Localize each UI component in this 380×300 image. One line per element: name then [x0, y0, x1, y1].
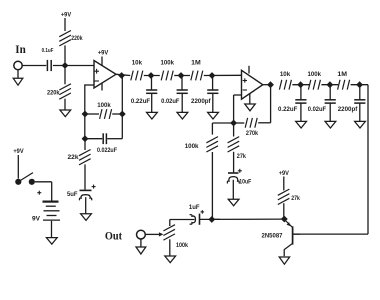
op-amp U2 triangle [242, 70, 263, 99]
input jack J1 [14, 61, 22, 69]
svg-text:100k: 100k [97, 102, 111, 109]
svg-text:1M: 1M [191, 60, 201, 67]
wire F2 to R10 [233, 123, 235, 137]
ground under battery [46, 238, 57, 245]
svg-text:0.02uF: 0.02uF [308, 106, 326, 113]
label + (battery) [37, 191, 41, 195]
resistor R12 100k [308, 80, 320, 90]
ground under Q1 [279, 257, 289, 264]
wire switch to battery [35, 182, 52, 201]
ground under output jack [136, 247, 146, 254]
wire node A to R2 [64, 69, 66, 85]
battery BT1 plates [43, 202, 61, 221]
svg-text:22k: 22k [68, 154, 79, 161]
node F1 left [82, 111, 88, 117]
node C [178, 73, 184, 79]
wire 100k fb right [112, 113, 122, 115]
svg-text:5uF: 5uF [67, 191, 78, 198]
wire 0.022uF right [107, 138, 122, 140]
wire U1 output [116, 74, 130, 75]
svg-text:1M: 1M [337, 71, 347, 78]
svg-text:0.022uF: 0.022uF [97, 147, 117, 154]
wire F2 left [212, 122, 233, 124]
ground under input jack [13, 78, 23, 85]
wire 100k fb left [85, 113, 99, 115]
wire R2 to ground [64, 99, 66, 110]
wire R11 to node E [292, 84, 309, 86]
label 100k (R3) [97, 102, 111, 109]
wire bus pot to C13 [170, 219, 195, 221]
wire C7 to ground [181, 93, 183, 112]
op-amp U1 minus input mark [94, 80, 99, 82]
label +9V transistor [279, 170, 290, 177]
potentiometer VR1 100k [163, 225, 175, 240]
wire C5 to ground [85, 197, 87, 214]
resistor R14 27k [278, 189, 290, 204]
wire U2 minus input [234, 94, 242, 96]
svg-text:220k: 220k [71, 35, 82, 42]
wire C13 to node I [200, 218, 221, 220]
wire node B to C6 [151, 76, 153, 90]
svg-text:2200pf: 2200pf [191, 98, 212, 105]
svg-text:27k: 27k [291, 195, 300, 202]
transistor Q1 emitter [285, 220, 292, 227]
wire U2 minus drop [233, 95, 235, 123]
wire feedback right vertical [367, 85, 369, 234]
wire node C to C7 [181, 76, 183, 90]
wire wiper [145, 233, 159, 235]
resistor R10 27k [228, 137, 240, 152]
label 0.22uF (C6) [131, 98, 151, 105]
label In [15, 44, 26, 56]
label 2200pf (C8) [191, 98, 212, 105]
wire jack to C1 [22, 65, 46, 67]
wire U1 feedback left vertical [84, 84, 86, 138]
wire C11 to ground [329, 103, 331, 121]
label 270k (R8) [246, 130, 258, 137]
svg-text:+9V: +9V [13, 148, 24, 155]
ground under C6 [147, 112, 158, 119]
ground under U2 [245, 104, 256, 111]
resistor R11 10k [279, 80, 291, 90]
ground under C12 [355, 121, 366, 128]
node B [148, 73, 154, 79]
wire C8 to ground [212, 93, 214, 112]
svg-text:0.02uF: 0.02uF [161, 98, 179, 105]
node F2 [231, 120, 237, 126]
wire 0.022uF left [85, 138, 102, 140]
wire battery to ground [51, 221, 53, 238]
node F1 right [119, 111, 125, 117]
label +9V battery [13, 148, 24, 155]
capacitor C1 0.1uF [47, 60, 51, 71]
label + (C13) [201, 210, 205, 214]
label 27k (R14) [291, 195, 300, 202]
node A [62, 63, 68, 69]
wire R4 to C5 [84, 164, 86, 189]
label +9V op-amp U1 [98, 49, 109, 56]
node D [209, 73, 215, 79]
wire jack to ground (out) [140, 239, 142, 247]
ground under C8 [208, 112, 219, 119]
wire node G to C12 [359, 85, 361, 100]
capacitor C6 0.22uF [146, 90, 157, 93]
svg-text:1uF: 1uF [189, 204, 200, 211]
svg-text:9V: 9V [32, 215, 41, 222]
label 10k (R5) [132, 60, 143, 67]
capacitor C4 0.022uF [103, 133, 106, 144]
wire node D to C8 [212, 76, 214, 90]
label 0.22uF (C10) [278, 106, 298, 113]
svg-text:27k: 27k [237, 153, 246, 160]
svg-text:0.22uF: 0.22uF [131, 98, 151, 105]
wire bus node I to node H [212, 218, 284, 220]
svg-text:270k: 270k [246, 130, 258, 137]
capacitor C9 10uF plus plate [228, 172, 239, 174]
wire F2 to R8 [234, 122, 245, 124]
label +9V top-left [61, 11, 72, 18]
wire R12 to node F [321, 84, 338, 86]
svg-text:+9V: +9V [61, 11, 72, 18]
resistor R1 220k pull-up [59, 31, 71, 46]
label 1uF [189, 204, 200, 211]
capacitor C5 5uF plus plate [80, 189, 92, 191]
capacitor C13 1uF plus plate [199, 214, 201, 225]
op-amp U1 triangle [94, 61, 116, 89]
svg-text:10uF: 10uF [239, 178, 251, 185]
switch SW1 lever [18, 173, 33, 182]
resistor R3 100k feedback [100, 109, 112, 119]
wire C6 to ground [151, 93, 153, 112]
op-amp U1 V+ pin tick [101, 57, 103, 67]
transistor Q1 collector [284, 243, 292, 256]
wire R13 to node G [351, 84, 368, 86]
svg-text:220k: 220k [47, 90, 60, 97]
capacitor C10 0.22uF [295, 100, 306, 103]
capacitor C8 2200pf [207, 90, 218, 93]
node G [357, 82, 363, 88]
wire node F to C11 [329, 85, 331, 100]
resistor R9 100k vertical [206, 137, 218, 152]
capacitor C5 5uF curved plate [79, 195, 91, 201]
ground under C5 [81, 214, 92, 221]
wire R1 to node A [64, 45, 66, 62]
label 0.022uF [97, 147, 117, 154]
svg-text:100k: 100k [161, 60, 175, 67]
label 0.02uF (C7) [161, 98, 179, 105]
label 100k (R6) [161, 60, 175, 67]
resistor R13 1M [338, 80, 350, 90]
wire pot top [169, 220, 171, 227]
op-amp U2 plus input mark [243, 78, 247, 82]
wire R6 to node C [174, 75, 190, 77]
pot wiper arrow [159, 232, 163, 236]
node E [298, 82, 304, 88]
label 100k (R9) [185, 143, 199, 150]
capacitor C9 10uF curved plate [227, 177, 239, 184]
switch SW1 pole dot [15, 179, 21, 185]
label 0.02uF (C11) [308, 106, 326, 113]
wire C10 to ground [300, 103, 302, 121]
svg-text:2N5087: 2N5087 [262, 233, 283, 240]
label 220k (R2) [47, 90, 60, 97]
wire R5 to node B [144, 75, 160, 77]
label 2N5087 [262, 233, 283, 240]
op-amp U2 minus input mark [243, 89, 247, 91]
op-amp U1 plus input mark [94, 69, 99, 74]
svg-text:+9V: +9V [279, 170, 290, 177]
node H [281, 216, 287, 222]
resistor R2 220k bias [59, 84, 71, 99]
capacitor C12 2200pf [354, 100, 365, 103]
capacitor C11 0.02uF [325, 100, 336, 103]
label 10uF [239, 178, 251, 185]
ground under C11 [325, 121, 336, 128]
svg-text:10k: 10k [132, 60, 143, 67]
wire C9 to ground [232, 180, 234, 199]
svg-text:100k: 100k [308, 71, 322, 78]
wire R7 to node D [204, 74, 242, 76]
output jack J2 [137, 230, 146, 239]
label 100k (R12) [308, 71, 322, 78]
wire corner down to R9 [211, 123, 213, 135]
wire R14 to node H [283, 203, 285, 219]
transistor Q1 base wire [293, 233, 300, 235]
ground under pot [165, 256, 176, 263]
wire +9V to R14 [283, 177, 285, 191]
label + (C5) [92, 185, 96, 189]
svg-text:100k: 100k [185, 143, 199, 150]
op-amp U2 V+ pin tick [248, 66, 250, 74]
node I [209, 216, 215, 222]
wire +9V to R1 [64, 18, 66, 31]
node F1 bottom [82, 136, 88, 142]
resistor R8 270k [245, 118, 257, 128]
wire R9 to output bus [211, 152, 213, 220]
label 0.1uF [42, 48, 54, 54]
resistor R7 1M [191, 71, 203, 81]
label 10k (R11) [280, 71, 291, 78]
node U1 output [119, 73, 125, 79]
label 100k (VR1) [176, 242, 188, 249]
label 1M (R7) [191, 60, 201, 67]
capacitor C13 1uF curved plate [190, 215, 196, 225]
svg-text:0.22uF: 0.22uF [278, 106, 298, 113]
label Out [105, 230, 122, 242]
wire U1 output feedback drop [121, 76, 123, 139]
switch SW1 throw dot [29, 179, 35, 185]
svg-text:10k: 10k [280, 71, 291, 78]
ground under R2 [60, 110, 71, 117]
svg-text:Out: Out [105, 230, 122, 242]
wire C1 to node A [53, 65, 94, 67]
wire node E to C10 [300, 85, 302, 100]
ground under C7 [177, 112, 188, 119]
resistor R6 100k [161, 71, 173, 81]
svg-text:100k: 100k [176, 242, 188, 249]
svg-text:0.1uF: 0.1uF [42, 48, 54, 54]
svg-text:+9V: +9V [98, 49, 109, 56]
resistor R5 10k [131, 71, 143, 81]
wire C12 to ground [359, 103, 361, 121]
label 1M (R13) [337, 71, 347, 78]
op-amp U2 V- pin tick [249, 94, 251, 104]
label 22k (R4) [68, 154, 79, 161]
node F [327, 82, 333, 88]
transistor Q1 base bar [292, 226, 294, 244]
wire node to R4 [84, 139, 86, 150]
capacitor C7 0.02uF [177, 90, 188, 93]
svg-text:In: In [15, 44, 26, 56]
resistor R4 22k [79, 150, 91, 165]
label 2200pf (C12) [338, 106, 359, 113]
wire jack to ground [17, 70, 19, 79]
node U2 output [268, 82, 274, 88]
wire U2 output [263, 84, 271, 86]
wire R8 to corner [258, 122, 270, 124]
label 220k (R1) [71, 35, 82, 42]
wire +9V to switch [17, 155, 19, 179]
wire feedback bottom horizontal [293, 233, 368, 235]
label + (C9) [238, 169, 242, 173]
label 27k (R10) [237, 153, 246, 160]
wire fb2 right vertical [270, 85, 272, 123]
label 5uF [67, 191, 78, 198]
ground under C9 [228, 199, 239, 206]
ground under C10 [296, 121, 307, 128]
label 9V [32, 215, 41, 222]
svg-text:2200pf: 2200pf [338, 106, 359, 113]
wire R10 to C9 [233, 152, 235, 173]
wire U1 minus input [85, 84, 94, 86]
op-amp U1 V- pin tick [101, 83, 103, 91]
wire pot bottom to ground [169, 239, 171, 256]
